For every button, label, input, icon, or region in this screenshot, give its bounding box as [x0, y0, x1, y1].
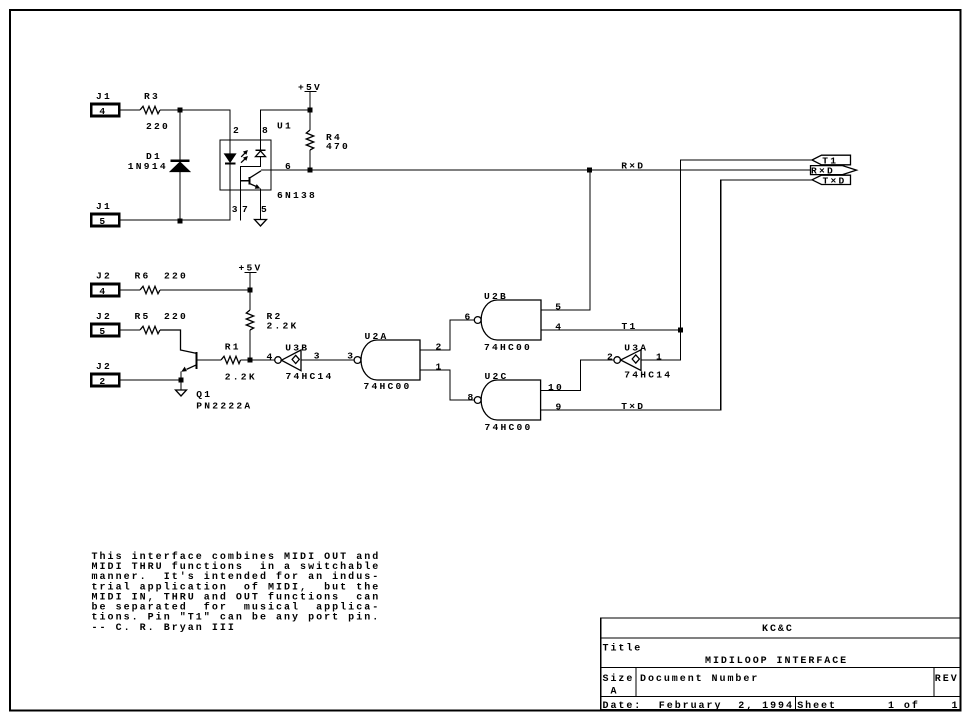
svg-text:5: 5	[99, 216, 107, 227]
svg-text:1: 1	[952, 701, 960, 712]
svg-text:Sheet: Sheet	[797, 700, 837, 712]
wire U2C pin10 to U3A pin2	[541, 360, 614, 391]
svg-text:R3: R3	[144, 91, 160, 102]
resistor R6	[135, 271, 189, 294]
U1 pin number labels	[232, 125, 293, 215]
wire J1-4 to R3	[120, 109, 140, 111]
port flag TxD	[812, 175, 851, 186]
svg-text:74HC00: 74HC00	[364, 381, 412, 392]
connector J2 pin 5	[91, 311, 119, 337]
svg-text:74HC14: 74HC14	[286, 371, 334, 382]
connector J2 pin 4	[91, 271, 119, 297]
svg-text:5: 5	[99, 326, 107, 337]
wire U2B pin5 to RxD net	[541, 170, 590, 310]
wire J2-2 to Q1 emitter	[120, 379, 181, 381]
wire R6 to +5V node	[160, 289, 250, 291]
note text block	[92, 551, 381, 634]
node junction R1/R2/U3B	[248, 358, 253, 363]
svg-text:A: A	[611, 687, 619, 698]
svg-text:Document Number: Document Number	[640, 673, 759, 685]
svg-text:Date:: Date:	[603, 701, 643, 712]
svg-text:KC&C: KC&C	[762, 624, 794, 635]
U1 photodiode	[241, 140, 266, 221]
svg-text:1 of: 1 of	[888, 700, 920, 712]
svg-text:February 2, 1994: February 2, 1994	[659, 700, 794, 712]
svg-text:74HC14: 74HC14	[624, 370, 672, 381]
svg-text:J1: J1	[96, 201, 112, 212]
svg-text:REV: REV	[935, 674, 959, 685]
connector J1 pin 5	[91, 201, 119, 227]
wire R3 to opto pin 2	[160, 110, 230, 140]
svg-text:U2B: U2B	[484, 291, 508, 302]
svg-text:4: 4	[267, 351, 275, 362]
resistor R5	[135, 311, 189, 334]
inverter U3B 74HC14	[275, 342, 334, 381]
svg-text:J2: J2	[96, 361, 112, 372]
resistor R1	[221, 341, 257, 382]
wire R1 to U3B pin 4	[241, 359, 275, 361]
power +5V (middle)	[239, 262, 263, 290]
svg-text:7: 7	[242, 204, 250, 215]
svg-text:1N914: 1N914	[128, 161, 168, 172]
svg-text:U2A: U2A	[365, 331, 389, 342]
svg-text:9: 9	[556, 401, 564, 412]
NAND gate U2A 74HC00	[354, 331, 420, 392]
NAND gate U2B 74HC00	[474, 291, 541, 353]
svg-text:8: 8	[262, 125, 270, 136]
svg-text:1: 1	[436, 361, 444, 372]
svg-text:10: 10	[548, 382, 564, 393]
diode D1 1N914	[128, 110, 190, 221]
wire U3A pin1 to T1 flag	[641, 160, 812, 360]
wire J2-5 to R5	[120, 329, 140, 331]
port flag RxD	[811, 165, 857, 176]
svg-text:74HC00: 74HC00	[484, 342, 532, 353]
resistor R4	[306, 110, 350, 170]
svg-text:U2C: U2C	[485, 371, 509, 382]
resistor R3	[140, 91, 170, 132]
svg-text:Q1: Q1	[196, 389, 212, 400]
ground under U1 pin 5	[255, 220, 267, 227]
svg-text:2: 2	[233, 125, 241, 136]
svg-text:5: 5	[261, 204, 269, 215]
svg-text:U3B: U3B	[285, 342, 309, 353]
resistor R2	[246, 290, 298, 360]
svg-text:Title: Title	[603, 643, 643, 655]
svg-text:T×D: T×D	[823, 176, 847, 187]
svg-text:R6: R6	[135, 271, 151, 282]
svg-text:4: 4	[555, 322, 563, 333]
wire U2A pin2 to U2B pin6	[420, 320, 474, 350]
svg-text:R5: R5	[135, 311, 151, 322]
wire U2C pin9 to TxD flag	[541, 180, 812, 410]
wire RxD net: U1 pin6 to RxD flag	[261, 169, 811, 171]
svg-text:T1: T1	[622, 321, 638, 332]
svg-text:1: 1	[656, 351, 664, 362]
connector J1 pin 4	[91, 91, 119, 117]
inverter U3A 74HC14	[614, 342, 672, 380]
svg-text:220: 220	[164, 271, 188, 282]
svg-text:74HC00: 74HC00	[485, 422, 533, 433]
svg-text:MIDILOOP INTERFACE: MIDILOOP INTERFACE	[705, 656, 848, 667]
transistor Q1 PN2222A	[181, 352, 252, 412]
svg-text:2.2K: 2.2K	[225, 372, 257, 383]
svg-text:-- C. R. Bryan III: -- C. R. Bryan III	[92, 623, 236, 634]
svg-text:220: 220	[164, 311, 188, 322]
svg-text:2: 2	[99, 376, 107, 387]
svg-text:3: 3	[232, 204, 240, 215]
svg-text:J1: J1	[96, 91, 112, 102]
ground under Q1	[176, 390, 187, 396]
svg-text:6N138: 6N138	[277, 190, 317, 201]
wire J1-5 to opto pin 3	[120, 190, 230, 220]
svg-text:J2: J2	[96, 271, 112, 282]
node junction D1/J1-5 wire	[178, 219, 183, 224]
svg-text:+5V: +5V	[239, 262, 263, 273]
svg-text:4: 4	[99, 286, 107, 297]
svg-text:be separated for musical ap: be separated for musical applica-	[92, 602, 381, 614]
svg-text:2.2K: 2.2K	[267, 321, 299, 332]
svg-text:6: 6	[465, 312, 473, 323]
svg-text:R×D: R×D	[621, 161, 645, 172]
svg-text:R1: R1	[225, 341, 241, 352]
svg-text:U3A: U3A	[624, 342, 648, 353]
U1 LED	[225, 140, 236, 190]
node junction RxD/U2B pin5	[587, 168, 592, 173]
svg-text:220: 220	[146, 121, 170, 132]
port flag T1	[812, 155, 851, 166]
title block	[601, 618, 961, 710]
svg-text:T×D: T×D	[621, 401, 645, 412]
node junction +5V/R6/R2	[248, 288, 253, 293]
svg-text:5: 5	[555, 302, 563, 313]
node junction T1/U2B pin4	[678, 328, 683, 333]
svg-text:PN2222A: PN2222A	[196, 400, 252, 411]
wire U1 pin 8 to +5V rail	[261, 110, 311, 140]
wire U3B pin 3 to U2A pin 3	[301, 359, 354, 361]
svg-text:Size: Size	[603, 673, 635, 685]
svg-text:4: 4	[99, 106, 107, 117]
node junction R4/RxD	[308, 168, 313, 173]
svg-text:U1: U1	[277, 121, 293, 132]
wire J2-4 to R6	[120, 289, 140, 291]
wire U2B pin4 to T1 net	[541, 329, 681, 331]
svg-text:3: 3	[314, 351, 322, 362]
op-to-coupler U1 6N138 box	[220, 121, 317, 202]
node junction Q1 emitter/J2-2	[179, 378, 184, 383]
node junction +5V/R4	[308, 108, 313, 113]
U1 light arrows	[241, 150, 248, 163]
wire U2A pin1 to U2C pin8	[420, 370, 474, 400]
svg-text:2: 2	[607, 351, 615, 362]
wire R5 to Q1 collector	[160, 330, 197, 353]
svg-text:2: 2	[436, 341, 444, 352]
svg-text:470: 470	[326, 141, 350, 152]
connector J2 pin 2	[91, 361, 119, 387]
svg-text:MIDI THRU functions in a swit: MIDI THRU functions in a switchable	[92, 561, 381, 573]
svg-text:J2: J2	[96, 311, 112, 322]
U1 phototransistor	[241, 171, 262, 220]
title block text	[603, 624, 960, 712]
node junction R3/D1	[178, 108, 183, 113]
power +5V (top)	[298, 82, 322, 110]
NAND gate U2C 74HC00	[474, 371, 540, 433]
